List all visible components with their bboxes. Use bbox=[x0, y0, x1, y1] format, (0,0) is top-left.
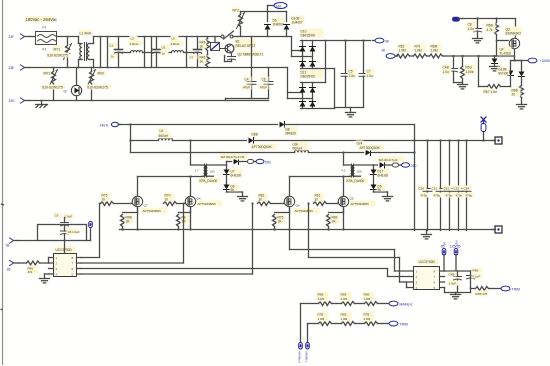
svg-text:1.5u: 1.5u bbox=[367, 74, 373, 78]
svg-text:47k: 47k bbox=[28, 270, 33, 274]
svg-text:C9: C9 bbox=[55, 214, 59, 218]
bridge rectifier D10 bbox=[300, 29, 326, 69]
240VAC terminal bbox=[100, 122, 121, 127]
svg-text:APT30DQ60K: APT30DQ60K bbox=[252, 145, 273, 149]
svg-text:1k: 1k bbox=[200, 60, 204, 64]
input terminal + resistor bbox=[7, 260, 49, 274]
svg-text:APT5040BN5: APT5040BN5 bbox=[351, 202, 370, 206]
aux terminal near box bbox=[87, 222, 93, 241]
svg-text:23F: 23F bbox=[9, 35, 15, 39]
MOSFET Q5 bbox=[329, 151, 376, 212]
svg-text:1.0M: 1.0M bbox=[341, 317, 348, 321]
svg-text:TRIM: TRIM bbox=[400, 323, 408, 327]
fuse F1/F2 bbox=[36, 26, 57, 52]
svg-text:C7: C7 bbox=[190, 56, 194, 60]
resistor R45 bbox=[199, 37, 210, 51]
harness: p2 to Q4 gate bbox=[82, 204, 184, 264]
svg-text:C31: C31 bbox=[432, 187, 438, 191]
MOSFET Q3 bbox=[497, 19, 522, 61]
output + terminal bbox=[492, 137, 502, 144]
rail 3 y152 bbox=[131, 152, 295, 154]
terminal L input bbox=[9, 34, 30, 39]
svg-text:1B: 1B bbox=[7, 268, 11, 272]
svg-text:S10-620K275: S10-620K275 bbox=[87, 86, 108, 90]
gate resistor R70 bbox=[164, 193, 186, 206]
varistor RT1 bbox=[47, 37, 72, 68]
diode D24 bbox=[356, 141, 415, 156]
svg-text:R6B: R6B bbox=[487, 24, 493, 28]
svg-text:1B: 1B bbox=[6, 244, 10, 248]
T2 clamp diodes bbox=[371, 165, 393, 201]
MOSFET Q4 bbox=[179, 139, 223, 212]
svg-text:MAIN(+): MAIN(+) bbox=[400, 303, 413, 307]
svg-text:1k: 1k bbox=[200, 45, 204, 49]
svg-text:1.00k: 1.00k bbox=[466, 70, 474, 74]
svg-text:4.7k: 4.7k bbox=[487, 28, 493, 32]
svg-text:1u: 1u bbox=[111, 55, 115, 59]
svg-text:1.0M: 1.0M bbox=[431, 49, 438, 53]
zener D12B bbox=[498, 61, 514, 87]
svg-text:R7B: R7B bbox=[318, 313, 324, 317]
resistor R7k bbox=[410, 44, 427, 59]
svg-text:APT5040BN5: APT5040BN5 bbox=[295, 209, 314, 213]
svg-text:1.0u: 1.0u bbox=[468, 27, 474, 31]
MOSFET source stubs to bus bbox=[137, 209, 139, 230]
svg-text:Q6: Q6 bbox=[296, 204, 300, 208]
DC+ output terminal bbox=[373, 38, 390, 43]
svg-text:470u: 470u bbox=[421, 194, 428, 198]
bulk cap C5 bbox=[341, 41, 357, 108]
vertical join after choke1 bbox=[100, 37, 102, 68]
svg-text:TRIM: TRIM bbox=[512, 288, 520, 292]
transistor Q2 bbox=[220, 44, 264, 56]
bridge1 feed wires bbox=[291, 37, 293, 57]
svg-text:100: 100 bbox=[357, 170, 362, 174]
svg-text:C4B: C4B bbox=[443, 66, 449, 70]
cap C3 X-cap bbox=[189, 37, 202, 68]
svg-text:1.0M: 1.0M bbox=[364, 297, 371, 301]
feedback resistor row bbox=[479, 56, 511, 95]
output - terminal bbox=[492, 226, 502, 233]
MOSFET Q7 bbox=[123, 177, 203, 214]
svg-text:470u: 470u bbox=[446, 194, 453, 198]
PE rail bbox=[30, 100, 269, 102]
240VAC source terminal top bbox=[268, 3, 288, 12]
svg-text:RT1: RT1 bbox=[54, 48, 61, 52]
svg-text:23E: 23E bbox=[9, 66, 15, 70]
ground bus y230 bbox=[120, 229, 496, 231]
bias row bbox=[454, 55, 515, 57]
svg-text:C7: C7 bbox=[367, 70, 371, 74]
DC+ rail bbox=[326, 40, 371, 42]
VCC input terminal bbox=[453, 17, 463, 21]
harness: p4 to Q6 gate bbox=[82, 202, 254, 274]
svg-text:D9B: D9B bbox=[252, 133, 258, 137]
svg-text:RELAY-SPST: RELAY-SPST bbox=[236, 44, 256, 48]
svg-text:3K: 3K bbox=[443, 242, 447, 246]
wire cap-bank line 1 / node +OUT bbox=[414, 141, 416, 231]
capacitor C4B bbox=[457, 271, 459, 277]
bulk cap C7 bbox=[359, 41, 375, 108]
svg-text:+15VDC: +15VDC bbox=[540, 59, 550, 63]
svg-text:MAIN(-): MAIN(-) bbox=[305, 352, 309, 363]
svg-text:470u: 470u bbox=[466, 194, 473, 198]
svg-text:DB025/6S: DB025/6S bbox=[301, 34, 316, 38]
rail 2 y140 bbox=[130, 125, 132, 153]
svg-text:UCC3750D: UCC3750D bbox=[419, 260, 436, 264]
harness: Q5 gate to IC2 pin3 bbox=[307, 202, 413, 282]
svg-text:10: 10 bbox=[165, 198, 169, 202]
capacitor C34 bbox=[462, 139, 474, 230]
svg-text:1.0M: 1.0M bbox=[318, 317, 325, 321]
svg-text:0.1uF: 0.1uF bbox=[473, 275, 481, 279]
svg-text:C8: C8 bbox=[468, 23, 472, 27]
bridge rectifier D11 bbox=[300, 70, 335, 109]
output row to +15VDC bbox=[515, 60, 528, 62]
bottom stakes bbox=[298, 304, 303, 363]
svg-text:.47uF: .47uF bbox=[242, 86, 250, 90]
source resistor R9B bbox=[121, 215, 134, 230]
svg-text:S10-620K275: S10-620K275 bbox=[42, 86, 63, 90]
box verticals bbox=[144, 37, 146, 68]
transformer T2 bbox=[342, 164, 374, 184]
MOSFET Q6 bbox=[275, 177, 350, 214]
harness: p1 to Q7 gate bbox=[82, 204, 100, 258]
Y-cap C4 bbox=[242, 37, 257, 99]
diode D9B bbox=[249, 132, 496, 150]
svg-text:R6B: R6B bbox=[341, 293, 347, 297]
IC U3 UCC3750D bbox=[49, 241, 82, 277]
top harness wire bbox=[241, 11, 287, 13]
svg-text:9k: 9k bbox=[378, 188, 382, 192]
svg-text:APT5040BN5: APT5040BN5 bbox=[143, 209, 162, 213]
svg-text:1.0M: 1.0M bbox=[399, 49, 406, 53]
svg-text:1.0M: 1.0M bbox=[415, 49, 422, 53]
svg-text:1.0uF: 1.0uF bbox=[65, 215, 73, 219]
svg-text:20: 20 bbox=[512, 93, 516, 97]
svg-text:10: 10 bbox=[259, 198, 263, 202]
R7B trim resistor bbox=[471, 286, 520, 296]
svg-text:1.0M: 1.0M bbox=[341, 297, 348, 301]
box-left feed terminal bbox=[6, 238, 38, 248]
svg-text:10: 10 bbox=[102, 198, 106, 202]
svg-text:1.0M: 1.0M bbox=[364, 317, 371, 321]
svg-text:RT2: RT2 bbox=[233, 9, 239, 13]
svg-text:R7B: R7B bbox=[364, 313, 370, 317]
resistor R62 bbox=[395, 44, 410, 59]
relay contact B1 on L rail bbox=[221, 31, 256, 49]
svg-text:2.8mH: 2.8mH bbox=[130, 42, 139, 46]
svg-text:9k: 9k bbox=[231, 188, 235, 192]
svg-text:Q7: Q7 bbox=[144, 204, 148, 208]
svg-text:6HEU8: 6HEU8 bbox=[231, 174, 242, 178]
ground earth PE bbox=[36, 101, 48, 108]
svg-text:3K: 3K bbox=[385, 40, 390, 44]
svg-text:1N4007: 1N4007 bbox=[292, 21, 303, 25]
resistor R46 bbox=[199, 51, 210, 68]
gate resistor R61 bbox=[314, 193, 339, 206]
label 180Vac-264Vac bbox=[25, 16, 58, 23]
svg-text:560uH: 560uH bbox=[159, 134, 169, 138]
svg-text:MAIN(+): MAIN(+) bbox=[298, 352, 302, 363]
svg-text:15V: 15V bbox=[455, 240, 459, 245]
svg-text:R67 1.0m: R67 1.0m bbox=[484, 90, 498, 94]
svg-text:C6: C6 bbox=[162, 46, 166, 50]
svg-text:B1: B1 bbox=[236, 40, 240, 44]
L rail through relay area bbox=[238, 36, 292, 38]
svg-text:C4: C4 bbox=[245, 78, 249, 82]
varistor RT2 bbox=[232, 8, 245, 37]
svg-text:KPA_DA400: KPA_DA400 bbox=[200, 179, 218, 183]
source resistor R8 bbox=[177, 215, 190, 230]
svg-text:1R: 1R bbox=[278, 220, 283, 224]
diode D10B bbox=[284, 12, 305, 37]
svg-text:1.0uF: 1.0uF bbox=[449, 282, 457, 286]
sense resistor row 1 bbox=[301, 292, 413, 307]
bridge2 feed wires bbox=[287, 68, 289, 99]
T2 snubber row bbox=[374, 157, 417, 169]
svg-text:I3: I3 bbox=[64, 90, 67, 94]
svg-text:L5: L5 bbox=[131, 37, 135, 41]
capacitor C31 bbox=[431, 139, 446, 230]
svg-text:Q4: Q4 bbox=[197, 197, 201, 201]
svg-text:240 A: 240 A bbox=[100, 124, 109, 128]
rail1 corner down bbox=[414, 125, 416, 141]
svg-text:Q5: Q5 bbox=[350, 197, 354, 201]
svg-text:8V/1W: 8V/1W bbox=[499, 72, 509, 76]
svg-text:L1 4mH: L1 4mH bbox=[80, 32, 92, 36]
svg-text:RV1: RV1 bbox=[44, 72, 51, 76]
ground bbox=[422, 230, 432, 239]
svg-text:D50: D50 bbox=[265, 161, 271, 165]
capacitor C30 bbox=[418, 139, 433, 230]
svg-text:1.0u: 1.0u bbox=[443, 70, 449, 74]
svg-text:1N4007: 1N4007 bbox=[273, 23, 284, 27]
diode D6 bbox=[265, 12, 285, 37]
svg-text:R5U: R5U bbox=[466, 66, 473, 70]
svg-text:1u: 1u bbox=[162, 52, 166, 56]
cap C8 bbox=[467, 19, 483, 43]
svg-text:1 7: 1 7 bbox=[195, 169, 200, 173]
svg-text:R7B 470: R7B 470 bbox=[476, 292, 488, 296]
ground at IC1 bbox=[40, 274, 50, 283]
svg-text:100: 100 bbox=[210, 170, 215, 174]
svg-text:TL431B: TL431B bbox=[500, 52, 511, 56]
svg-text:RV2: RV2 bbox=[98, 72, 105, 76]
T1 snubber row bbox=[220, 154, 272, 165]
svg-text:S10-620K275: S10-620K275 bbox=[47, 54, 68, 58]
sense resistor row 2 bbox=[308, 312, 408, 327]
svg-text:1R: 1R bbox=[126, 220, 131, 224]
svg-text:1.5u: 1.5u bbox=[349, 74, 355, 78]
relay coil box bbox=[211, 37, 220, 51]
harness: p3 to IC2 pin2 bbox=[82, 269, 414, 277]
svg-text:180Vac - 264Vac: 180Vac - 264Vac bbox=[26, 17, 58, 22]
VCC rail bbox=[463, 18, 516, 20]
svg-text:D50: D50 bbox=[411, 164, 417, 168]
gate resistor R75 bbox=[100, 193, 133, 206]
filter box vertical bbox=[107, 37, 109, 68]
harness: sense line bus to IC2 pin1 bbox=[290, 230, 414, 272]
svg-text:C30: C30 bbox=[419, 187, 425, 191]
svg-text:560uH: 560uH bbox=[293, 147, 303, 151]
wire after fuse bbox=[57, 36, 79, 38]
harness: IC2 pin4 stub bbox=[407, 287, 414, 289]
svg-text:L6: L6 bbox=[160, 129, 164, 133]
svg-text:C5: C5 bbox=[349, 70, 353, 74]
svg-text:3K: 3K bbox=[382, 49, 387, 53]
varistor RV2 bbox=[87, 68, 111, 101]
rail 1 y124 bbox=[119, 124, 278, 126]
svg-text:C6: C6 bbox=[262, 78, 266, 82]
L rail segment to choke2 bbox=[94, 36, 221, 38]
cap at transistor bbox=[225, 53, 236, 62]
svg-text:240: 240 bbox=[276, 4, 282, 8]
choke L5 horizontal bbox=[129, 36, 143, 53]
resistor R6B 4.7k bbox=[486, 19, 499, 41]
mid line with choke L5 bbox=[119, 52, 131, 54]
inductor L6 bbox=[158, 128, 173, 141]
svg-text:R6B: R6B bbox=[318, 293, 324, 297]
svg-text:1.0M: 1.0M bbox=[318, 297, 325, 301]
capacitor C32 bbox=[443, 139, 455, 230]
capacitor C4 0.1uF bbox=[467, 276, 475, 279]
svg-text:C1: C1 bbox=[110, 44, 114, 48]
terminal N input bbox=[9, 65, 30, 70]
svg-text:10: 10 bbox=[315, 198, 319, 202]
IC2 top terminals bbox=[442, 242, 446, 271]
svg-text:4 1: 4 1 bbox=[342, 169, 347, 173]
svg-text:C8 1.0uF: C8 1.0uF bbox=[68, 230, 81, 234]
PE bottom segment bbox=[226, 98, 269, 100]
capacitor C33 bbox=[453, 139, 464, 230]
svg-text:C4B: C4B bbox=[449, 273, 455, 277]
svg-text:23G: 23G bbox=[9, 99, 16, 103]
svg-text:470u: 470u bbox=[434, 194, 441, 198]
svg-text:APT5040BN5: APT5040BN5 bbox=[198, 202, 217, 206]
resistor R6M bbox=[427, 44, 454, 59]
inductor L6A bbox=[292, 142, 309, 153]
svg-text:R6B: R6B bbox=[364, 293, 370, 297]
svg-text:C32: C32 bbox=[444, 187, 450, 191]
T1 clamp diodes bbox=[224, 162, 248, 201]
svg-text:Q2 MMBTA06LT1: Q2 MMBTA06LT1 bbox=[238, 53, 264, 57]
svg-text:C33: C33 bbox=[454, 187, 460, 191]
svg-text:MR826: MR826 bbox=[286, 132, 297, 136]
transformer T1 bbox=[191, 164, 227, 184]
svg-text:C34: C34 bbox=[464, 187, 470, 191]
wire L rail bbox=[30, 36, 36, 38]
svg-text:DB025/6S: DB025/6S bbox=[301, 75, 316, 79]
svg-text:L6: L6 bbox=[172, 37, 176, 41]
cap C2 X-cap bbox=[153, 37, 170, 68]
terminal PE input bbox=[9, 98, 30, 103]
bridge interconnects bbox=[325, 41, 327, 83]
IC2 right network bbox=[445, 268, 483, 299]
bottom bus of bridges bbox=[335, 107, 364, 109]
varistor RV1 bbox=[42, 68, 66, 101]
fuse F3 output bbox=[481, 117, 486, 142]
svg-text:2.8mH: 2.8mH bbox=[171, 42, 180, 46]
choke L6f horizontal bbox=[170, 36, 184, 53]
gate resistor R81 bbox=[258, 193, 285, 206]
capacitor C9 / C8 loop box bbox=[38, 213, 87, 241]
Y-cap C6 bbox=[259, 68, 274, 99]
neon lamp I3 bbox=[64, 68, 82, 101]
HV feed terminal bbox=[382, 49, 398, 59]
IC1 left pin1 wire bbox=[48, 258, 50, 264]
cap C4B bbox=[442, 56, 463, 83]
svg-text:R6B: R6B bbox=[341, 313, 347, 317]
diode D8 bbox=[280, 122, 415, 136]
cap C1 X-cap bbox=[109, 37, 123, 68]
resistor R5U bbox=[458, 56, 476, 89]
svg-text:F2: F2 bbox=[43, 48, 47, 52]
svg-text:6HEU8: 6HEU8 bbox=[378, 174, 389, 178]
svg-text:.47uF: .47uF bbox=[259, 86, 267, 90]
svg-text:F1: F1 bbox=[43, 26, 47, 30]
svg-text:KPA_DA400: KPA_DA400 bbox=[347, 179, 365, 183]
svg-text:SM-30(4x7)uF D5: SM-30(4x7)uF D5 bbox=[221, 155, 245, 159]
ground of bridge bus bbox=[346, 108, 356, 117]
TL431 U4 bbox=[490, 41, 512, 71]
choke L1 common mode bbox=[79, 30, 94, 68]
N rail left bbox=[30, 67, 79, 69]
zener D13 + R6B2 bbox=[511, 61, 527, 109]
svg-text:SM-30(4x7)uF: SM-30(4x7)uF bbox=[379, 158, 398, 162]
page border left edge bbox=[2, 0, 4, 365]
svg-text:APT30DQ60K: APT30DQ60K bbox=[360, 146, 381, 150]
source resistor R82 bbox=[327, 215, 340, 230]
svg-text:470u: 470u bbox=[456, 194, 463, 198]
svg-text:R4B: R4B bbox=[473, 269, 479, 273]
source resistor R75b bbox=[273, 215, 286, 230]
svg-text:B10NK60Z: B10NK60Z bbox=[506, 32, 522, 36]
svg-text:1R: 1R bbox=[332, 220, 337, 224]
